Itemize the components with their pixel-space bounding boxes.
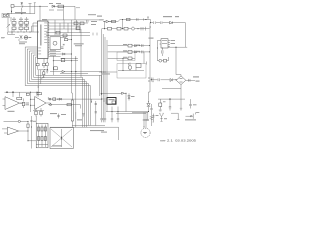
svg-text:M: M — [144, 132, 146, 135]
svg-text:ver 2.1 03.03.2005: ver 2.1 03.03.2005 — [160, 140, 197, 143]
